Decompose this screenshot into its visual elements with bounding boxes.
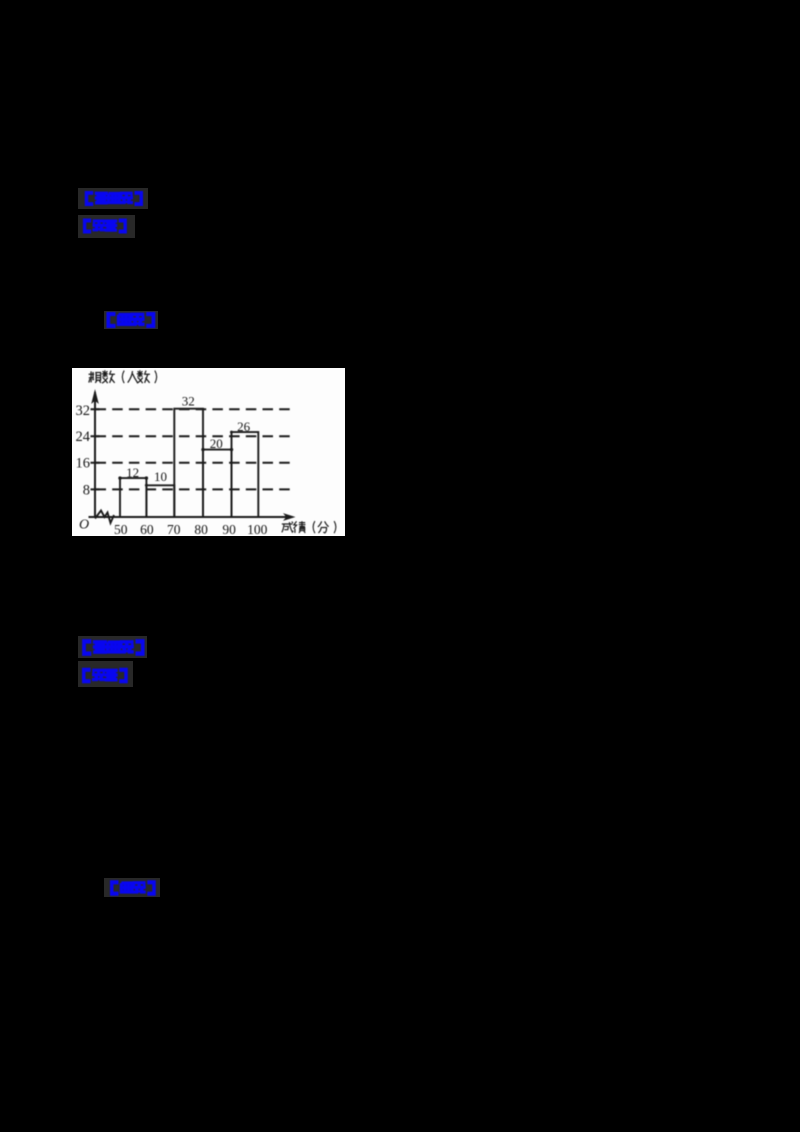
- svg-text:80: 80: [194, 522, 208, 536]
- gray highlight box 4: [78, 636, 147, 658]
- svg-text:70: 70: [167, 522, 181, 536]
- bar 80-90 value 20: [203, 449, 232, 516]
- gray highlight box 5: [78, 661, 133, 687]
- y-axis title 频数（人数）: [89, 370, 157, 383]
- corner dots: [118, 476, 121, 479]
- gray highlight box 3: [104, 311, 158, 329]
- bar 50-60 value 12: [120, 478, 146, 517]
- histogram chart: [72, 368, 345, 536]
- svg-text:16: 16: [76, 455, 91, 471]
- bar 90-100 value 26: [232, 432, 259, 517]
- svg-text:12: 12: [126, 465, 139, 480]
- axis break zigzag: [95, 510, 114, 523]
- svg-text:8: 8: [83, 482, 90, 498]
- blue label 【知识点】 q2: [80, 639, 147, 656]
- svg-text:32: 32: [182, 393, 195, 408]
- bar 60-70 value 10: [146, 485, 174, 517]
- dashed gridline 32: [96, 408, 294, 410]
- x-axis arrowhead: [283, 513, 296, 521]
- blue label 【答案】 q1: [81, 218, 129, 234]
- svg-text:100: 100: [247, 522, 268, 536]
- svg-text:24: 24: [76, 428, 91, 444]
- blue label 【详解】 q2: [108, 880, 158, 896]
- dashed gridline 16: [96, 461, 294, 463]
- svg-text:50: 50: [114, 522, 128, 536]
- svg-text:90: 90: [222, 522, 236, 536]
- x-axis title 成绩（分）: [282, 521, 336, 533]
- gray highlight box 2: [78, 215, 135, 238]
- white chart panel: [72, 368, 345, 536]
- blue label 【详解】 q1: [104, 312, 158, 328]
- gray highlight box 1: [78, 188, 148, 209]
- dashed gridline 8: [96, 488, 294, 490]
- x-axis: [89, 516, 288, 518]
- blue label 【答案】 q2: [80, 667, 130, 684]
- svg-text:10: 10: [154, 469, 167, 484]
- y-axis: [94, 392, 96, 517]
- svg-text:60: 60: [140, 522, 154, 536]
- y-axis arrowhead: [91, 389, 99, 404]
- svg-text:O: O: [79, 517, 89, 532]
- SVG glyph defs (simplified hanzi strokes): [0, 0, 5, 5]
- blue label 【知识点】 q1: [81, 191, 147, 206]
- dashed gridline 24: [96, 435, 294, 437]
- svg-text:26: 26: [237, 419, 251, 434]
- y tick stubs: [91, 409, 100, 489]
- svg-text:20: 20: [210, 436, 223, 451]
- gray highlight box 6: [104, 878, 160, 897]
- bar 70-80 value 32: [174, 408, 203, 516]
- svg-text:32: 32: [76, 403, 91, 419]
